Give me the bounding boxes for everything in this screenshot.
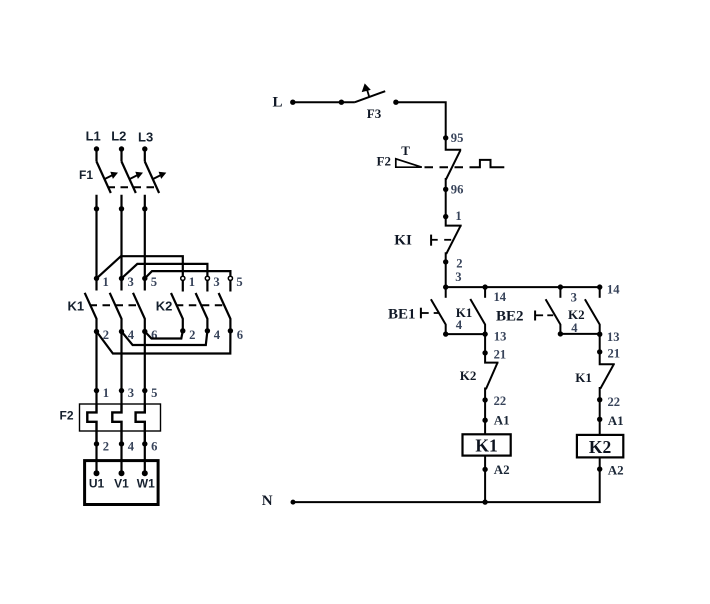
- svg-text:W1: W1: [137, 477, 155, 491]
- wire L to F3: [293, 101, 355, 103]
- svg-text:3: 3: [571, 291, 577, 305]
- thermal trip latch symbol: [478, 160, 505, 167]
- svg-text:6: 6: [151, 328, 157, 342]
- svg-text:3: 3: [128, 386, 134, 400]
- contactor K1 contact 3 upper stub: [120, 278, 122, 290]
- svg-text:2: 2: [456, 256, 462, 270]
- node motor terminal U1: [94, 470, 100, 476]
- node K2 terminal 1: [181, 276, 185, 280]
- contact K2-aux upper stub: [599, 287, 601, 298]
- node L1 terminal: [94, 146, 99, 151]
- svg-text:A1: A1: [494, 413, 510, 428]
- svg-text:U1: U1: [89, 477, 105, 491]
- wire 22 to A1 rung2: [599, 400, 601, 420]
- svg-text:V1: V1: [114, 477, 129, 491]
- wire phase 1 F2 to motor: [95, 444, 97, 473]
- contact KI blade: [446, 226, 461, 262]
- svg-text:1: 1: [455, 209, 461, 223]
- svg-text:K1: K1: [575, 370, 592, 385]
- node motor terminal W1: [142, 470, 148, 476]
- overload relay F2 box: [80, 404, 161, 431]
- junction phase 3: [142, 206, 147, 211]
- wire phase 2 K1 to F2: [120, 332, 122, 405]
- node L2 terminal: [119, 146, 124, 151]
- wire phase 2 F2 to motor: [120, 444, 122, 473]
- wire phase 3 F2 to motor: [144, 444, 146, 473]
- svg-text:F1: F1: [79, 168, 93, 182]
- wire coil K2 to A2: [599, 457, 601, 469]
- wire phase 1 F1 to K1: [95, 195, 97, 279]
- node K1 terminal 2: [94, 329, 99, 334]
- switch F3 blade: [355, 91, 385, 102]
- svg-text:5: 5: [236, 275, 242, 289]
- wire 13 to 21 rung1: [484, 334, 486, 353]
- node A2 rung1: [482, 467, 487, 472]
- node K1 terminal 1: [94, 276, 99, 281]
- svg-text:A1: A1: [608, 413, 624, 428]
- wire phase 2 F1 to K1: [120, 195, 122, 279]
- node 13 rung2: [597, 332, 602, 337]
- svg-text:96: 96: [451, 182, 464, 196]
- breaker F1 pole 3 actuator arrow: [153, 172, 166, 179]
- svg-text:K2: K2: [589, 437, 611, 457]
- wire BE2 to K2-aux bottom: [560, 333, 599, 335]
- node K1 terminal 4: [119, 329, 124, 334]
- node 1: [443, 214, 448, 219]
- node motor terminal V1: [119, 470, 125, 476]
- wire K1 pin 4 to K2 pin 4: [122, 331, 208, 345]
- breaker F1 pole 3 blade: [145, 162, 159, 194]
- node N terminal: [291, 500, 296, 505]
- wire K1 pin 6 to K2 pin 2: [145, 331, 183, 339]
- svg-text:22: 22: [494, 394, 507, 408]
- svg-text:3: 3: [455, 270, 461, 284]
- wire 2 to rail: [445, 262, 447, 287]
- thermal release symbol of F2: [396, 159, 422, 167]
- control branch rail: [446, 286, 600, 288]
- contact K1 NC upper stub: [600, 352, 615, 364]
- contactor K2 contact 3 upper stub: [206, 280, 208, 291]
- contact K2 NC blade: [485, 363, 497, 400]
- node A2 rung2: [597, 466, 602, 471]
- junction rail BE2 tap: [558, 284, 563, 289]
- contact KI upper stub: [446, 217, 462, 226]
- pushbutton BE2 actuator: [535, 311, 553, 321]
- switch F3 trip arrow: [362, 83, 371, 96]
- node L3 terminal: [142, 146, 147, 151]
- node K2 terminal 4: [205, 328, 210, 333]
- svg-text:BE2: BE2: [496, 309, 524, 325]
- svg-text:3: 3: [128, 275, 134, 289]
- svg-text:13: 13: [494, 329, 507, 343]
- svg-text:14: 14: [494, 290, 507, 304]
- node K1 terminal 3: [119, 276, 124, 281]
- breaker F1 linkage (dashed): [108, 186, 157, 188]
- svg-text:K1: K1: [456, 305, 473, 320]
- node F2 terminal 5: [142, 388, 147, 393]
- node F2 terminal 4: [119, 441, 124, 446]
- junction F3 left: [339, 100, 344, 105]
- junction F3 right: [393, 100, 398, 105]
- contactor K2 contact 3 blade: [196, 293, 208, 331]
- svg-text:4: 4: [456, 318, 463, 332]
- junction N rail: [482, 499, 487, 504]
- svg-text:1: 1: [103, 275, 109, 289]
- overload relay F2 heater element 3: [136, 404, 145, 444]
- svg-text:22: 22: [608, 395, 621, 409]
- node 96: [443, 187, 448, 192]
- svg-text:BE1: BE1: [388, 306, 416, 322]
- wire phase 3 F1 to K1: [144, 195, 146, 279]
- overload relay F2 heater element 2: [112, 404, 121, 444]
- wire BE1 to K1-aux bottom: [446, 333, 485, 335]
- pushbutton BE1 blade: [431, 299, 446, 334]
- wire phase 3 K1 to F2: [144, 332, 146, 405]
- junction phase 1: [94, 206, 99, 211]
- svg-text:K2: K2: [568, 307, 585, 322]
- contactor K1 contact 3 blade: [110, 293, 122, 332]
- junction rail K2-aux tap: [597, 284, 602, 289]
- wire 22 to A1 rung1: [484, 400, 486, 420]
- node L terminal: [290, 100, 295, 105]
- coil K1: [463, 434, 511, 455]
- pushbutton BE1 upper stub: [445, 287, 447, 298]
- contactor K2 contact 1 upper stub: [182, 280, 184, 291]
- node F2 terminal 6: [142, 441, 147, 446]
- svg-text:L2: L2: [111, 129, 126, 144]
- contactor K1 contact 1 upper stub: [95, 278, 97, 290]
- wire L3 to K2 pin 5: [145, 271, 231, 278]
- node 21 rung2: [597, 349, 602, 354]
- breaker F1 pole 1 lead: [95, 149, 97, 162]
- svg-text:F2: F2: [60, 408, 74, 422]
- contactor K1 contact 5 upper stub: [144, 278, 146, 290]
- svg-text:F3: F3: [367, 106, 382, 121]
- svg-text:K2: K2: [156, 298, 173, 313]
- contactor K1 contact 1 blade: [85, 293, 97, 332]
- contact F2 blade: [446, 150, 461, 189]
- wire coil K1 to A2: [484, 456, 486, 470]
- wire A2 to N rail rung1: [484, 469, 486, 502]
- svg-text:2: 2: [189, 328, 195, 342]
- svg-text:21: 21: [608, 346, 621, 360]
- node F2 terminal 3: [119, 388, 124, 393]
- pushbutton BE1 actuator: [421, 308, 439, 319]
- node F2 terminal 1: [94, 388, 99, 393]
- node K2 terminal 3: [205, 276, 209, 280]
- coil K2: [577, 435, 623, 458]
- node 22 rung2: [597, 397, 602, 402]
- node F2 terminal 2: [94, 441, 99, 446]
- node K2 terminal 6: [228, 328, 233, 333]
- junction rail K1-aux tap: [482, 284, 487, 289]
- svg-text:KI: KI: [394, 233, 412, 249]
- svg-text:14: 14: [607, 283, 620, 297]
- node 2: [443, 259, 448, 264]
- node 13 rung1: [482, 331, 487, 336]
- junction rail left: [443, 284, 448, 289]
- svg-text:1: 1: [103, 386, 109, 400]
- pushbutton BE2 blade: [546, 299, 561, 334]
- breaker F1 pole 1 blade: [97, 162, 111, 194]
- wire K1 pin 2 to K2 pin 6: [97, 332, 231, 354]
- svg-text:F2: F2: [377, 154, 391, 169]
- svg-text:6: 6: [151, 439, 157, 453]
- motor terminal box: [85, 461, 159, 505]
- contactor K2 contact 5 upper stub: [229, 280, 231, 291]
- svg-text:5: 5: [151, 275, 157, 289]
- svg-text:5: 5: [151, 386, 157, 400]
- node A1 rung2: [597, 417, 602, 422]
- contact K1 NC blade: [600, 365, 614, 400]
- wire F3 to F2 contact: [396, 102, 446, 138]
- svg-text:4: 4: [128, 439, 135, 453]
- node K2 terminal 5: [228, 276, 232, 280]
- contactor K1 contact 5 blade: [133, 293, 145, 332]
- node 95: [443, 135, 448, 140]
- wire A1 to coil K1: [484, 420, 486, 434]
- svg-text:A2: A2: [608, 463, 624, 478]
- contact KI actuator: [431, 235, 451, 246]
- node K1 terminal 6: [142, 329, 147, 334]
- contactor K2 contact 1 blade: [171, 293, 183, 331]
- contact F2 upper stub: [446, 138, 462, 150]
- contact K1-aux blade: [470, 299, 485, 334]
- svg-text:13: 13: [607, 330, 620, 344]
- node K2 terminal 2: [180, 328, 185, 333]
- junction phase 2: [119, 206, 124, 211]
- svg-text:L: L: [273, 95, 283, 111]
- svg-text:L1: L1: [86, 129, 101, 144]
- breaker F1 pole 2 blade: [122, 162, 136, 194]
- wire L1 to K2 pin 1: [97, 256, 183, 278]
- svg-text:2: 2: [103, 439, 109, 453]
- svg-text:N: N: [262, 493, 273, 509]
- wire to N rail / N rail: [293, 469, 600, 502]
- wire 96 to 1: [445, 189, 447, 216]
- svg-text:95: 95: [451, 131, 464, 145]
- contactor K2 linkage (dashed): [176, 304, 227, 306]
- svg-text:K1: K1: [475, 436, 497, 456]
- svg-text:21: 21: [494, 347, 507, 361]
- breaker F1 pole 3 lead: [144, 149, 146, 162]
- svg-text:6: 6: [237, 328, 243, 342]
- wire phase 1 K1 to F2: [95, 332, 97, 405]
- pushbutton BE2 upper stub: [559, 287, 561, 298]
- junction BE2 bottom: [558, 331, 563, 336]
- svg-text:1: 1: [189, 275, 195, 289]
- node A1 rung1: [482, 418, 487, 423]
- svg-text:L3: L3: [138, 130, 153, 145]
- contact K1-aux upper stub: [484, 287, 486, 298]
- wire A1 to coil K2: [599, 419, 601, 435]
- breaker F1 pole 2 lead: [120, 149, 122, 162]
- node K1 terminal 5: [142, 276, 147, 281]
- svg-text:3: 3: [213, 275, 219, 289]
- wire 13 to 21 rung2: [599, 334, 601, 352]
- junction BE1 bottom: [443, 331, 448, 336]
- svg-text:A2: A2: [494, 462, 510, 477]
- svg-text:K2: K2: [460, 368, 477, 383]
- svg-text:T: T: [401, 143, 410, 158]
- node 22 rung1: [482, 397, 487, 402]
- svg-text:4: 4: [214, 328, 221, 342]
- contactor K1 linkage (dashed): [90, 304, 141, 306]
- wire L2 to K2 pin 3: [122, 264, 208, 279]
- breaker F1 pole 2 actuator arrow: [130, 172, 143, 179]
- overload relay F2 heater element 1: [87, 404, 96, 444]
- node 21 rung1: [482, 350, 487, 355]
- contact K2-aux blade: [585, 299, 600, 334]
- contact K2 NC upper stub: [485, 353, 498, 363]
- contactor K2 contact 5 blade: [219, 293, 231, 331]
- breaker F1 pole 1 actuator arrow: [105, 172, 118, 179]
- contact F2 trip link (dashed): [425, 166, 478, 168]
- svg-text:K1: K1: [68, 298, 85, 313]
